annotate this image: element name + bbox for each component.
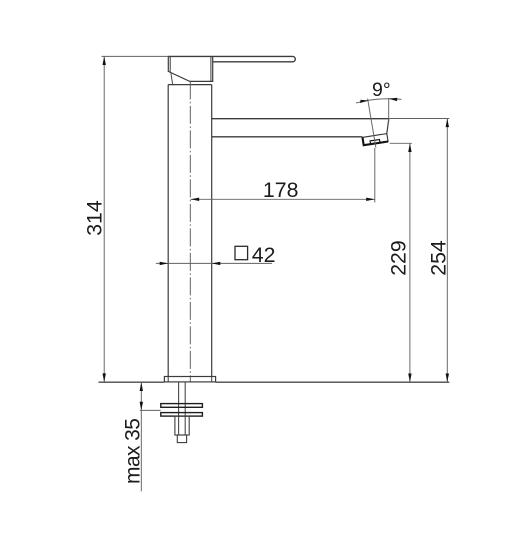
faucet head (cartridge housing) — [168, 56, 212, 81]
dimension line square 42 — [156, 262, 272, 264]
angle arrow right — [389, 98, 398, 101]
arrow max35 down — [140, 402, 143, 411]
svg-text:178: 178 — [263, 178, 299, 202]
countertop line — [99, 381, 450, 383]
faucet handle lever — [168, 56, 295, 61]
head right inner edge — [210, 57, 212, 81]
arrow max35 up — [140, 382, 143, 391]
angle reference line vertical — [388, 98, 390, 122]
dimension line 178 — [191, 198, 375, 200]
dimension line max 35 — [140, 382, 142, 491]
arrow 314 bottom — [103, 373, 106, 382]
angle dimension arc — [356, 99, 402, 103]
aerator insert screen — [370, 140, 380, 145]
extension line 254 — [389, 118, 450, 120]
svg-text:254: 254 — [426, 240, 450, 276]
angle arrow left — [360, 100, 369, 103]
flange inner left cap — [167, 377, 169, 382]
threaded shank — [179, 382, 186, 435]
extension line max35 — [140, 409, 161, 411]
spout end cut (9 deg) — [387, 119, 389, 134]
washer 2 — [161, 413, 203, 417]
arrow 178 right — [366, 198, 375, 201]
arrow 42 right — [212, 262, 221, 265]
dimension line 229 — [409, 144, 411, 383]
arrow 42 left — [160, 262, 169, 265]
arrow 254 top — [446, 119, 449, 128]
svg-text:9°: 9° — [372, 79, 391, 101]
extension line 178 right — [374, 148, 376, 203]
aerator housing (tilted 9 deg) — [362, 134, 388, 146]
svg-text:314: 314 — [83, 200, 107, 236]
faucet body column — [168, 85, 212, 377]
spout top edge — [212, 118, 389, 120]
head inner tilted line — [171, 73, 173, 84]
aerator thick bottom edge — [363, 138, 389, 146]
base flange — [164, 377, 215, 382]
washer 1 — [161, 404, 203, 408]
arrow 229 top — [408, 143, 411, 152]
dimension line 254 — [446, 119, 448, 383]
extension line, 314 top — [102, 55, 169, 57]
arrow 229 bottom — [408, 374, 411, 383]
centerline (dash-dot) — [189, 81, 191, 382]
svg-text:max 35: max 35 — [121, 419, 144, 484]
flange inner right cap — [211, 377, 213, 382]
nut tip — [177, 435, 186, 443]
mounting nut block — [175, 416, 189, 435]
svg-text:229: 229 — [387, 240, 411, 276]
dimension line 314 — [103, 57, 105, 382]
arrow 254 bottom — [446, 374, 449, 383]
spout bottom edge — [212, 136, 363, 138]
extension line 229 — [390, 142, 412, 144]
square symbol — [235, 246, 248, 259]
head left inner edge — [169, 57, 171, 72]
arrow 178 left — [191, 198, 200, 201]
arrow 314 top — [103, 56, 106, 65]
angle reference line tilted 9 deg — [368, 99, 376, 148]
svg-text:42: 42 — [252, 243, 276, 267]
